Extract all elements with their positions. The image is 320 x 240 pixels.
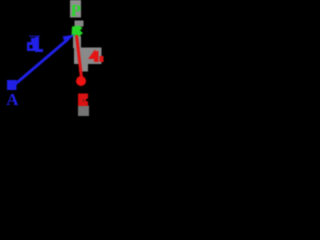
node P marker: [72, 26, 84, 38]
node B label: [78, 94, 88, 107]
node O marker: [76, 76, 86, 86]
svg-text:A: A: [6, 90, 19, 109]
vector R wire: [13, 40, 67, 86]
gray rect mid: [74, 48, 102, 65]
gray strip below mid rect: [79, 64, 88, 72]
gray square bottom: [78, 106, 89, 117]
node A marker: [7, 80, 17, 90]
red vector value label: [88, 50, 104, 63]
gray strip top: [70, 0, 81, 18]
vector R arrowhead: [63, 35, 75, 44]
gray patch above node: [75, 21, 84, 27]
gray strip behind red line: [73, 36, 81, 48]
vector R value label: [27, 36, 43, 53]
red vector wire: [77, 35, 82, 78]
svg-text:P: P: [71, 1, 81, 20]
